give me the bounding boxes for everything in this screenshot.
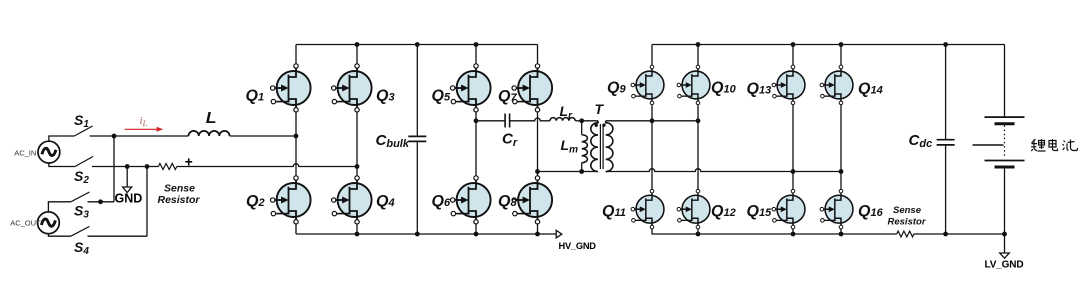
svg-text:AC_IN: AC_IN — [14, 148, 36, 157]
wire secondary top — [606, 120, 698, 122]
wire leg Q4 source stub — [356, 224, 358, 234]
transistor Q11 — [631, 189, 664, 229]
wire Cbulk bottom — [416, 142, 418, 235]
wire leg Q1-Q2 — [295, 112, 297, 176]
wire AC_OUT top — [48, 202, 70, 212]
junction brail Q8 — [535, 232, 540, 237]
svg-text:Q14: Q14 — [858, 81, 883, 98]
switch S4 — [71, 226, 90, 257]
wire battery top — [1004, 45, 1006, 118]
svg-text:Lr: Lr — [560, 103, 574, 122]
junction primary bottom to leg — [535, 169, 540, 174]
svg-text:Resistor: Resistor — [158, 194, 201, 206]
wire primary bottom — [538, 171, 599, 173]
transistor Q8 — [512, 176, 552, 224]
wire leg Q10 drain stub — [697, 45, 699, 66]
inductor Lm — [561, 121, 588, 172]
svg-text:Q10: Q10 — [711, 80, 737, 97]
svg-text:Q1: Q1 — [246, 88, 265, 105]
inductor L — [189, 110, 230, 136]
svg-text:T: T — [595, 101, 605, 117]
wire secondary bottom with hops — [606, 169, 841, 172]
svg-text:LV_GND: LV_GND — [985, 260, 1024, 271]
AC source AC_IN — [14, 141, 60, 163]
capacitor Cr — [505, 114, 510, 128]
wire leg Q13 drain stub — [792, 45, 794, 66]
junction Cr tap — [474, 118, 479, 123]
svg-text:+: + — [185, 153, 193, 169]
svg-text:S4: S4 — [74, 239, 89, 257]
wire leg Q12 source stub — [697, 229, 699, 234]
wire Cdc top — [945, 45, 947, 140]
junction LV brail Q12 — [696, 232, 701, 237]
wire leg Q13-Q15 — [792, 105, 794, 190]
wire S2 to sense resistor — [92, 166, 158, 168]
wire leg Q7 drain stub — [537, 45, 539, 64]
junction node top — [112, 134, 117, 139]
transistor Q5 — [451, 64, 491, 112]
svg-text:Q2: Q2 — [246, 193, 265, 210]
svg-text:Q6: Q6 — [432, 193, 451, 210]
svg-text:Sense: Sense — [893, 205, 922, 216]
svg-text:Q9: Q9 — [607, 80, 626, 97]
transformer T — [591, 101, 613, 172]
wire Cbulk top — [416, 45, 418, 137]
junction LV rail Q13 — [791, 42, 796, 47]
svg-text:iL: iL — [140, 115, 148, 128]
wire S4 return vertical — [146, 167, 148, 237]
svg-text:Q11: Q11 — [602, 203, 626, 220]
wire AC_IN top — [49, 136, 74, 141]
transistor Q14 — [820, 65, 853, 105]
wire S4 to return vertical — [88, 235, 148, 237]
wire leg Q9 drain stub — [651, 45, 653, 66]
svg-text:HV_GND: HV_GND — [559, 241, 597, 251]
wire leg Q14-Q16 — [840, 105, 842, 190]
junction top wire to leg1 — [294, 134, 299, 139]
junction GND tap — [125, 164, 130, 169]
wire leg Q2 source stub — [295, 224, 297, 234]
svg-text:Q8: Q8 — [498, 193, 517, 210]
wire Cr left — [476, 120, 505, 122]
junction secondary bottom leg4 — [839, 169, 844, 174]
wire leg Q11 source stub — [651, 229, 653, 234]
wire leg Q5 drain stub — [475, 45, 477, 64]
wire LV bottom rail right part — [914, 233, 1005, 235]
junction LV rail Cdc — [943, 42, 948, 47]
junction LV brail Cdc — [943, 232, 948, 237]
wire leg Q16 source stub — [840, 229, 842, 234]
ground LV_GND — [985, 234, 1024, 271]
transistor Q7 — [512, 64, 552, 112]
resistor sense resistor (left) — [158, 164, 201, 207]
wire LV top rail — [652, 44, 1005, 46]
svg-text:Q5: Q5 — [432, 88, 451, 105]
transistor Q10 — [677, 65, 710, 105]
wire Lr to primary — [575, 120, 598, 122]
svg-text:Cdc: Cdc — [909, 132, 933, 150]
wire leg Q1 drain stub — [295, 45, 297, 64]
ground GND — [115, 167, 143, 206]
wire leg Q14 drain stub — [840, 45, 842, 66]
svg-text:Q16: Q16 — [858, 203, 884, 220]
junction brail Q4 — [355, 232, 360, 237]
capacitor Cdc — [937, 140, 955, 145]
junction LV rail Q14 — [839, 42, 844, 47]
svg-text:Lm: Lm — [561, 137, 579, 156]
transistor Q16 — [820, 189, 853, 229]
wire sense resistor to bridge with hop — [177, 164, 357, 167]
wire S1 to inductor — [90, 135, 189, 137]
svg-text:AC_OUT: AC_OUT — [10, 218, 41, 227]
wire leg Q9-Q11 — [651, 105, 653, 190]
wire leg Q3-Q4 — [356, 112, 358, 176]
AC source AC_OUT — [10, 212, 59, 234]
junction LV ground node — [1002, 232, 1007, 237]
wire S3 to node — [88, 201, 115, 203]
junction secondary bottom leg3 — [791, 169, 796, 174]
junction LV brail Q15 — [791, 232, 796, 237]
svg-text:Cbulk: Cbulk — [376, 132, 410, 150]
wire leg Q8 source stub — [537, 224, 539, 234]
svg-text:S2: S2 — [74, 168, 89, 186]
current arrow iL — [125, 115, 164, 132]
wire AC_IN bottom — [49, 163, 75, 167]
junction Lm bottom tap — [579, 169, 584, 174]
wire HV bottom rail — [296, 233, 556, 235]
switch S1 — [74, 112, 93, 136]
junction rail Q5 — [474, 42, 479, 47]
transistor Q6 — [451, 176, 491, 224]
wire inductor to bridge — [230, 135, 296, 137]
svg-text:Q12: Q12 — [711, 203, 736, 220]
svg-text:Q15: Q15 — [747, 203, 773, 220]
svg-text:GND: GND — [115, 192, 143, 206]
wire leg Q3 drain stub — [356, 45, 358, 64]
junction brail Cbulk — [415, 232, 420, 237]
junction secondary top leg1 — [650, 118, 655, 123]
switch S2 — [74, 157, 93, 187]
resistor sense resistor (right) — [888, 205, 927, 237]
wire battery bottom — [1004, 167, 1006, 234]
junction rail Q3 — [355, 42, 360, 47]
svg-text:Sense: Sense — [164, 183, 195, 195]
junction bottom wire to leg2 — [355, 164, 360, 169]
svg-text:S1: S1 — [74, 112, 89, 130]
wire Cr to Lr with hop — [510, 118, 550, 121]
transistor Q15 — [772, 189, 805, 229]
transistor Q13 — [772, 65, 805, 105]
wire LV bottom rail left part — [652, 233, 897, 235]
inductor Lr — [550, 103, 575, 122]
switch S3 — [71, 192, 90, 221]
svg-text:S3: S3 — [74, 203, 89, 221]
svg-text:Q4: Q4 — [376, 193, 395, 210]
wire Cdc bottom — [945, 145, 947, 234]
label battery 锂电池 — [1031, 139, 1078, 151]
junction rail Cbulk — [415, 42, 420, 47]
svg-text:Q13: Q13 — [747, 81, 772, 98]
wire leg Q7-Q8 — [537, 112, 539, 176]
wire leg Q15 source stub — [792, 229, 794, 234]
transistor Q2 — [271, 176, 311, 224]
battery cell plates — [973, 117, 1025, 167]
svg-text:Q3: Q3 — [376, 88, 395, 105]
junction S3 wire — [98, 199, 103, 204]
svg-text:Cr: Cr — [502, 131, 518, 149]
svg-text:Resistor: Resistor — [888, 217, 927, 228]
junction brail Q6 — [474, 232, 479, 237]
ground HV_GND — [556, 230, 596, 251]
wire leg Q5-Q6 — [475, 112, 477, 176]
capacitor Cbulk — [408, 136, 426, 141]
wire leg Q6 source stub — [475, 224, 477, 234]
wire vertical to AC_OUT branch — [113, 136, 115, 202]
junction S4 return tap — [145, 164, 150, 169]
transistor Q3 — [332, 64, 372, 112]
transistor Q1 — [271, 64, 311, 112]
junction secondary top leg2 — [696, 118, 701, 123]
junction LV brail Q16 — [839, 232, 844, 237]
transistor Q4 — [332, 176, 372, 224]
junction Lm top tap — [579, 118, 584, 123]
wire AC_OUT bottom — [48, 234, 70, 237]
junction LV rail Q10 — [696, 42, 701, 47]
transistor Q9 — [631, 65, 664, 105]
wire HV top rail — [296, 44, 538, 46]
svg-text:L: L — [206, 110, 217, 127]
wire leg Q10-Q12 — [697, 105, 699, 190]
transistor Q12 — [677, 189, 710, 229]
